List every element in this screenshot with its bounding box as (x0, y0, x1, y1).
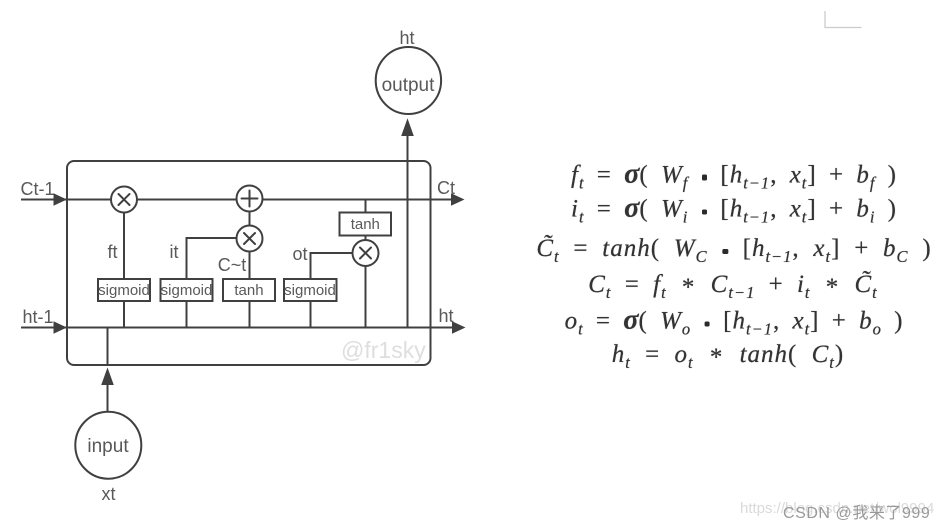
svg-text:sigmoid: sigmoid (284, 282, 336, 299)
wire input inside cell (107, 328, 109, 366)
arrowhead Ct-1 into cell (54, 193, 67, 206)
plus symbol (242, 191, 258, 207)
wire add to multiply vertical (249, 212, 251, 227)
X symbol gate1 (119, 194, 130, 205)
equation line 3 (536, 235, 931, 267)
multiply gate X2 (input) (237, 226, 263, 252)
X symbol gate2 (244, 233, 255, 244)
wire forget gate up (123, 213, 125, 280)
svg-text:ht: ht (399, 28, 414, 48)
svg-text:ht-1: ht-1 (22, 307, 53, 327)
wire tanh3 down (249, 301, 251, 328)
cell body rounded rectangle (67, 161, 431, 365)
wire sigmoid2 down (186, 301, 188, 328)
wire output vertical (407, 133, 409, 328)
wire input vertical (107, 383, 109, 412)
equation line 2 (571, 193, 897, 228)
watermark faint url (740, 500, 934, 517)
tanh box 3 (223, 279, 275, 301)
add gate (237, 186, 263, 212)
equation line 1 (571, 158, 897, 193)
arrowhead into output node (401, 118, 414, 136)
arrowhead Ct out (451, 193, 465, 206)
watermark fr1sky (341, 337, 426, 364)
wire candidate up (249, 252, 251, 280)
sigmoid box 1 (98, 279, 150, 301)
svg-text:xt: xt (101, 484, 115, 504)
svg-text:ht: ht (438, 306, 453, 326)
equation line 4 (588, 271, 878, 303)
corner mark top right (825, 11, 862, 28)
wire ht-1 to ht horizontal (21, 327, 452, 329)
svg-text:input: input (87, 436, 129, 457)
equation line 6 (612, 341, 844, 373)
arrowhead ht out (452, 321, 466, 334)
multiply gate X1 (forget) (111, 187, 137, 213)
svg-text:ot: ot (292, 244, 307, 264)
wire output gate elbow (311, 253, 354, 279)
X symbol gate3 (360, 248, 371, 259)
svg-text:C~t: C~t (218, 255, 247, 275)
svg-text:sigmoid: sigmoid (161, 282, 213, 299)
equation line 5 (565, 305, 904, 340)
multiply gate X3 (output) (353, 240, 379, 266)
wire multiply3 to ht line (365, 266, 367, 328)
svg-text:tanh: tanh (234, 282, 263, 299)
tanh box top (340, 213, 392, 236)
arrowhead ht-1 into cell (54, 321, 67, 334)
arrowhead input into cell (101, 368, 114, 386)
wire input gate elbow (187, 238, 239, 279)
watermark CSDN (783, 499, 930, 523)
sigmoid box 2 (161, 279, 213, 301)
wire tanh box to multiply (365, 236, 367, 242)
svg-text:sigmoid: sigmoid (98, 282, 150, 299)
input node circle (75, 412, 141, 479)
wire Ct to tanh box (365, 200, 367, 213)
svg-text:ft: ft (107, 242, 117, 262)
wire Ct-1 to Ct horizontal (21, 199, 452, 201)
svg-text:output: output (382, 75, 436, 96)
svg-text:it: it (170, 242, 179, 262)
svg-text:Ct-1: Ct-1 (20, 179, 54, 199)
output node circle (376, 47, 441, 114)
wire sigmoid1 down (123, 301, 125, 328)
svg-text:Ct: Ct (437, 178, 455, 198)
svg-text:tanh: tanh (351, 216, 380, 233)
sigmoid box 4 (284, 279, 337, 301)
wire sigmoid4 down (310, 301, 312, 328)
